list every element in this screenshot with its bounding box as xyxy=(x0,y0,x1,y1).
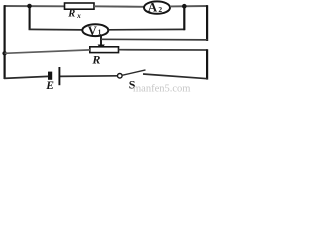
svg-text:x: x xyxy=(76,12,81,20)
wire switch to battery xyxy=(60,75,117,78)
switch S lever xyxy=(123,70,146,75)
svg-text:manfen5.com: manfen5.com xyxy=(133,84,190,94)
svg-text:A: A xyxy=(148,0,158,14)
svg-text:V: V xyxy=(88,24,97,38)
ammeter A2 xyxy=(144,1,170,13)
junction dot top-right xyxy=(182,4,187,9)
svg-text:R: R xyxy=(91,53,100,67)
voltmeter V1 xyxy=(82,24,108,36)
wire right vertical upper xyxy=(206,5,208,41)
wire right vertical lower xyxy=(206,49,208,79)
resistor Rx xyxy=(65,3,95,9)
wire dot down to V1 level xyxy=(29,6,31,30)
wire top-left to Rx xyxy=(4,5,65,7)
wire bottom right to switch xyxy=(143,74,208,79)
battery E short thick plate xyxy=(48,72,52,80)
svg-text:E: E xyxy=(45,80,54,92)
wire riser up to top dot xyxy=(183,6,185,30)
junction dot left middle xyxy=(2,51,6,55)
wire wiper to right vertical xyxy=(101,38,208,41)
wiper arrow of rheostat xyxy=(100,35,102,46)
wire rheostat right xyxy=(119,49,208,51)
svg-text:2: 2 xyxy=(158,5,162,14)
wire left to rheostat xyxy=(5,50,90,53)
junction dot top-left xyxy=(27,4,32,9)
wire to V1 left terminal xyxy=(29,28,83,31)
svg-text:R: R xyxy=(67,8,75,19)
wire A2 to top-right corner xyxy=(170,5,208,7)
switch S pivot xyxy=(118,74,123,79)
wire V1 right to riser xyxy=(108,28,185,30)
wire left vertical xyxy=(3,5,5,79)
battery E long plate xyxy=(58,67,60,85)
rheostat R xyxy=(90,47,119,53)
wire battery to bottom-left corner xyxy=(4,76,48,78)
wire Rx to A2 xyxy=(94,5,145,8)
